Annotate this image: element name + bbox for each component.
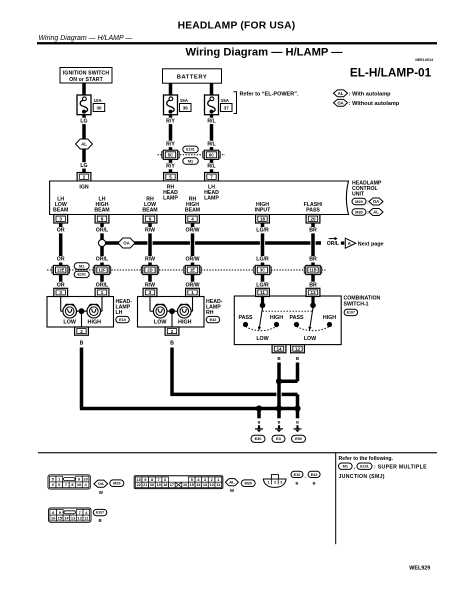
svg-text:BEAM: BEAM (142, 207, 157, 213)
svg-text:HIGH: HIGH (270, 315, 283, 321)
svg-text:12F: 12F (98, 268, 106, 273)
svg-text:M29: M29 (113, 482, 120, 486)
svg-text:Wiring Diagram — H/LAMP —: Wiring Diagram — H/LAMP — (39, 35, 134, 42)
svg-text:3: 3 (280, 481, 282, 485)
svg-text:LG/R: LG/R (256, 228, 269, 234)
svg-text:B: B (99, 518, 102, 523)
svg-text:B: B (296, 421, 299, 425)
svg-text:LOW: LOW (63, 319, 76, 325)
svg-text:BR: BR (309, 282, 317, 288)
svg-text:INPUT: INPUT (255, 207, 271, 213)
svg-text:R/Y: R/Y (166, 164, 175, 170)
svg-text:M1: M1 (188, 159, 193, 163)
svg-text:HEADLAMP (FOR USA): HEADLAMP (FOR USA) (178, 20, 296, 31)
svg-text::: : (367, 210, 369, 216)
svg-text:16: 16 (183, 483, 187, 487)
svg-text:12E: 12E (57, 268, 65, 273)
svg-text:2D: 2D (147, 268, 152, 273)
svg-text:15: 15 (190, 483, 194, 487)
svg-text:LG/R: LG/R (256, 282, 269, 288)
svg-text:20: 20 (310, 216, 316, 221)
svg-text:R/W: R/W (145, 228, 155, 234)
svg-text:NEEL0014: NEEL0014 (415, 58, 433, 62)
svg-text:SWITCH-1: SWITCH-1 (344, 302, 369, 308)
svg-text:E3: E3 (276, 437, 281, 441)
svg-text:B: B (80, 341, 84, 347)
svg-text:BR: BR (309, 228, 317, 234)
svg-text:9: 9 (144, 478, 146, 482)
svg-text:4: 4 (191, 216, 194, 221)
svg-text:OR/L: OR/L (327, 241, 340, 247)
svg-text:LOW: LOW (256, 336, 268, 342)
svg-text:5C: 5C (168, 153, 173, 158)
svg-text:7: 7 (65, 482, 67, 487)
svg-text:6: 6 (149, 216, 152, 221)
svg-text:BEAM: BEAM (94, 207, 109, 213)
svg-text:OR/L: OR/L (96, 257, 109, 263)
svg-text:OR/W: OR/W (185, 282, 199, 288)
svg-text:OR/W: OR/W (185, 257, 199, 263)
svg-text:OR/W: OR/W (185, 228, 199, 234)
svg-text:E10: E10 (294, 473, 301, 477)
svg-text:8: 8 (151, 478, 153, 482)
svg-text:6: 6 (164, 478, 166, 482)
svg-text:10A: 10A (94, 98, 103, 103)
svg-text:R/Y: R/Y (166, 141, 175, 147)
svg-text:R/W: R/W (145, 257, 155, 263)
svg-text:15A: 15A (180, 98, 189, 103)
svg-text:AL: AL (373, 210, 379, 215)
svg-text:IGNITION SWITCH: IGNITION SWITCH (63, 71, 110, 77)
svg-text:B: B (258, 421, 261, 425)
svg-text:R/L: R/L (207, 164, 216, 170)
svg-text:8: 8 (101, 216, 104, 221)
svg-text:BR: BR (309, 257, 317, 263)
svg-text:19: 19 (156, 483, 160, 487)
svg-text:1: 1 (268, 481, 270, 485)
svg-text:18: 18 (163, 483, 167, 487)
svg-text:3: 3 (59, 216, 62, 221)
svg-text:1: 1 (101, 290, 104, 295)
svg-text:OR/L: OR/L (96, 282, 109, 288)
svg-text:AL: AL (81, 142, 87, 147)
svg-text:7: 7 (210, 174, 213, 179)
svg-text:17: 17 (170, 483, 174, 487)
svg-text:12: 12 (295, 346, 301, 351)
svg-text:3: 3 (204, 478, 206, 482)
svg-text:E107: E107 (96, 511, 104, 515)
svg-text:13: 13 (310, 290, 316, 295)
svg-text:1E: 1E (190, 268, 195, 273)
svg-text:PASS: PASS (238, 315, 252, 321)
svg-text:15A: 15A (221, 98, 230, 103)
svg-text:Refer to “EL-POWER”.: Refer to “EL-POWER”. (240, 92, 299, 98)
svg-text:13: 13 (203, 483, 207, 487)
svg-text:JUNCTION (SMJ): JUNCTION (SMJ) (339, 474, 385, 480)
svg-text:R/W: R/W (145, 282, 155, 288)
svg-text:20: 20 (83, 477, 87, 482)
svg-text:BEAM: BEAM (185, 207, 200, 213)
svg-text:IGN: IGN (79, 185, 88, 191)
svg-text:HIGH: HIGH (323, 315, 336, 321)
svg-text:22: 22 (137, 483, 141, 487)
svg-text:BATTERY: BATTERY (177, 75, 208, 81)
svg-text:M29: M29 (355, 200, 362, 204)
svg-text:11: 11 (216, 483, 220, 487)
svg-text:B: B (313, 481, 316, 486)
svg-text:LOW: LOW (304, 336, 316, 342)
svg-text:LH: LH (116, 310, 123, 316)
svg-text:: Without autolamp: : Without autolamp (349, 101, 400, 107)
svg-text:.: . (305, 475, 306, 480)
svg-text:20: 20 (150, 483, 154, 487)
svg-text:5: 5 (169, 174, 172, 179)
svg-text:UNIT: UNIT (352, 192, 365, 198)
svg-text:B: B (278, 421, 281, 425)
svg-text:WEL929: WEL929 (409, 566, 430, 572)
svg-text:: With autolamp: : With autolamp (349, 91, 391, 97)
svg-text:E42: E42 (311, 473, 318, 477)
svg-text:E50: E50 (295, 437, 302, 441)
svg-text:LOW: LOW (154, 319, 167, 325)
svg-text:RH: RH (206, 310, 214, 316)
svg-text:LG/R: LG/R (256, 257, 269, 263)
svg-text:5: 5 (191, 478, 193, 482)
svg-text:2: 2 (80, 329, 83, 334)
svg-text:11: 11 (260, 290, 265, 295)
svg-text:30: 30 (96, 106, 102, 111)
svg-text:E42: E42 (210, 318, 217, 322)
svg-text:E101: E101 (77, 273, 85, 277)
svg-text:OA: OA (337, 100, 343, 105)
svg-text:10: 10 (77, 482, 81, 487)
svg-text:BEAM: BEAM (53, 207, 68, 213)
svg-text:OA: OA (373, 199, 379, 204)
svg-text:11B: 11B (309, 268, 316, 273)
svg-text:PASS: PASS (306, 207, 320, 213)
svg-text:ON or START: ON or START (69, 77, 104, 83)
svg-text:M1: M1 (79, 264, 84, 268)
svg-text:1: 1 (217, 478, 219, 482)
svg-text:AL: AL (338, 91, 344, 96)
svg-text:3C: 3C (260, 268, 265, 273)
svg-text:OR: OR (57, 282, 65, 288)
svg-text:Refer to the following.: Refer to the following. (339, 456, 394, 462)
svg-text:6C: 6C (209, 153, 214, 158)
svg-text:R/L: R/L (207, 118, 216, 124)
svg-text:E10: E10 (119, 318, 126, 322)
svg-text:AL: AL (229, 480, 235, 485)
svg-text:: SUPER MULTIPLE: : SUPER MULTIPLE (374, 464, 427, 470)
svg-text:OR: OR (57, 228, 65, 234)
svg-text:OA: OA (98, 481, 104, 486)
svg-text:3: 3 (59, 290, 62, 295)
svg-text:12: 12 (210, 483, 214, 487)
svg-text:PASS: PASS (289, 315, 303, 321)
svg-text:LG: LG (80, 118, 87, 124)
svg-text:R/L: R/L (207, 141, 216, 147)
svg-text::: : (367, 200, 369, 206)
svg-text:14: 14 (276, 346, 282, 351)
svg-text:2: 2 (211, 478, 213, 482)
svg-text:E30: E30 (255, 437, 262, 441)
svg-text:Wiring Diagram — H/LAMP —: Wiring Diagram — H/LAMP — (186, 47, 344, 59)
svg-text:Next page: Next page (358, 242, 384, 248)
svg-text:B: B (170, 341, 174, 347)
svg-text:HIGH: HIGH (88, 319, 102, 325)
svg-text:B: B (296, 481, 299, 486)
svg-text:E101: E101 (360, 465, 368, 469)
svg-text:M1: M1 (343, 465, 348, 469)
svg-text:HIGH: HIGH (178, 319, 192, 325)
svg-text:7: 7 (79, 510, 81, 515)
svg-text:LAMP: LAMP (163, 196, 178, 202)
svg-text:EL-H/LAMP-01: EL-H/LAMP-01 (350, 66, 432, 80)
svg-text:18: 18 (260, 216, 266, 221)
svg-text:M30: M30 (355, 210, 362, 214)
svg-text:OR: OR (57, 257, 65, 263)
svg-text:E107: E107 (347, 311, 355, 315)
svg-text:2: 2 (171, 329, 174, 334)
svg-text:10: 10 (137, 478, 141, 482)
svg-text:3: 3 (149, 290, 152, 295)
svg-text:1: 1 (191, 290, 194, 295)
svg-text:21: 21 (143, 483, 147, 487)
svg-text:2: 2 (274, 481, 276, 485)
svg-text:36: 36 (183, 106, 189, 111)
svg-text:37: 37 (224, 106, 230, 111)
svg-text:R/Y: R/Y (166, 118, 175, 124)
svg-text:7: 7 (158, 478, 160, 482)
svg-text:OA: OA (123, 241, 129, 246)
svg-text:E101: E101 (186, 148, 194, 152)
svg-text:LG: LG (80, 163, 87, 169)
svg-text:2: 2 (83, 174, 86, 179)
svg-text:M30: M30 (245, 482, 252, 486)
svg-text:LAMP: LAMP (204, 196, 219, 202)
svg-text:OR/L: OR/L (96, 228, 109, 234)
